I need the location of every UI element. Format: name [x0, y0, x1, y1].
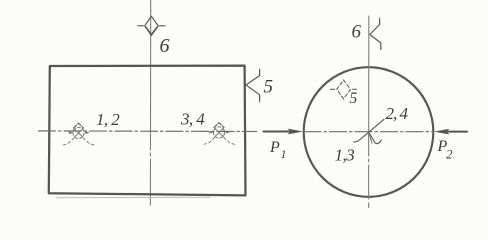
svg-text:2, 4: 2, 4 — [386, 104, 409, 123]
svg-text:1,3: 1,3 — [335, 146, 355, 165]
wire: horizontal centerline of plate — [39, 130, 257, 133]
scan shadow under plate bottom edge — [56, 196, 210, 199]
svg-text:6: 6 — [160, 35, 170, 57]
wire: horizontal centerline of circle — [304, 131, 433, 133]
svg-text:5: 5 — [350, 90, 358, 107]
circle outline (specimen) — [304, 67, 434, 197]
wire: vertical centerline of circle — [368, 16, 370, 208]
rosette gauge 6 (diamond) on plate centerline — [138, 16, 165, 35]
force arrow P1 — [264, 131, 293, 133]
plate outline — [49, 66, 246, 196]
svg-text:6: 6 — [352, 22, 362, 43]
wire: vertical centerline of plate — [149, 0, 151, 207]
gauge 6 mark on circle vertical centerline — [370, 19, 381, 50]
strain gauge 1,2 (dashed rosette on far side) — [63, 123, 95, 145]
force arrow P2 — [446, 131, 467, 133]
svg-text:1: 1 — [281, 147, 287, 161]
svg-text:3, 4: 3, 4 — [180, 110, 205, 129]
gauge 5 mark on plate right edge — [246, 70, 260, 102]
svg-text:P: P — [269, 139, 280, 156]
svg-text:1, 2: 1, 2 — [96, 110, 120, 129]
svg-text:5: 5 — [264, 77, 274, 98]
leader to gauges 2,4 at circle center — [369, 119, 384, 132]
leader to gauges 1,3 at circle center — [354, 132, 369, 142]
strain gauge 3,4 (dashed rosette on far side) — [204, 123, 235, 145]
svg-text:2: 2 — [446, 147, 453, 162]
gauge rosette 5 inside circle (dashed diamond) — [331, 80, 357, 99]
gauge hook symbol at circle center — [369, 132, 382, 143]
